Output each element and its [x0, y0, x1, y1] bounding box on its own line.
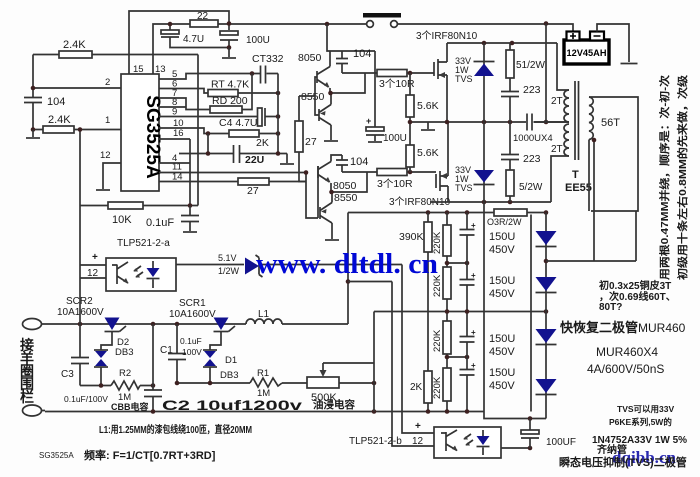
resistor 220K no3 [446, 312, 448, 358]
svg-text:TLP521-2-b: TLP521-2-b [349, 436, 402, 447]
resistor 3x10R bottom [342, 171, 436, 173]
node output terminal bottom [23, 405, 42, 416]
resistor 220K no2 [446, 263, 448, 312]
svg-text:150U: 150U [489, 275, 515, 287]
svg-text:2.4K: 2.4K [48, 114, 71, 126]
capacitor 223 top [501, 92, 519, 97]
capacitor bank C-a [466, 213, 468, 230]
svg-text:12: 12 [412, 436, 424, 447]
svg-text:齐纳管: 齐纳管 [597, 443, 627, 456]
wire: frame box 150U [484, 202, 531, 412]
capacitor 104 left [24, 98, 42, 103]
svg-text:TVS可以用33V: TVS可以用33V [617, 404, 674, 414]
svg-text:100U: 100U [383, 133, 407, 144]
capacitor CT332 [261, 66, 266, 84]
capacitor C2 [152, 324, 154, 390]
svg-text:15: 15 [133, 64, 144, 75]
zener 5.1V 1/2W [176, 264, 244, 266]
resistor R2 1M [80, 385, 153, 387]
capacitor 100U mid [374, 51, 376, 127]
switch S1 [363, 13, 401, 18]
resistor 2.4K upper [59, 51, 92, 58]
inductor primary 2T bottom [564, 124, 569, 156]
svg-text:+: + [92, 252, 98, 263]
svg-text:150U: 150U [489, 367, 515, 379]
wire: bottom rail y202 [430, 201, 551, 203]
diode D-mur2 MUR460 [536, 277, 557, 291]
svg-text:0.1uF: 0.1uF [146, 217, 174, 229]
svg-text:DB3: DB3 [220, 370, 238, 381]
svg-text:O3R/2W: O3R/2W [487, 217, 522, 227]
resistor 27 vertical [299, 96, 306, 182]
wire: pin15 top loop [129, 11, 229, 74]
wire: mid rail y122 [410, 121, 569, 123]
wire: left frame x348 [347, 213, 349, 325]
resistor 10K [80, 205, 198, 207]
svg-text:2K: 2K [410, 382, 423, 393]
svg-text:13: 13 [155, 64, 166, 75]
wire: center tap [534, 121, 570, 123]
svg-text:初级用十条左右0.8MM的先来做，次级: 初级用十条左右0.8MM的先来做，次级 [676, 74, 689, 280]
svg-text:SG3525A: SG3525A [39, 451, 74, 460]
svg-text:223: 223 [523, 153, 541, 165]
wire: opto-a output [259, 265, 434, 434]
resistor 27 horizontal [159, 181, 306, 183]
resistor O3R/2W [494, 209, 527, 216]
wire: pair1 bases [299, 77, 319, 115]
svg-text:450V: 450V [489, 244, 515, 256]
svg-text:5.1V: 5.1V [218, 253, 237, 263]
svg-text:CT332: CT332 [252, 53, 284, 65]
svg-text:L1: L1 [258, 309, 270, 320]
ground battery [621, 63, 638, 65]
resistor RD 200 [159, 74, 252, 110]
transistor M1 IRF80N10 top [433, 62, 435, 76]
wire: x348 link [348, 282, 434, 447]
potentiometer 500K [307, 377, 339, 388]
svg-text:TVS: TVS [455, 74, 473, 84]
wire: mid tap y311.5 [374, 311, 546, 313]
capacitor 100UF [529, 419, 531, 431]
svg-text:27: 27 [247, 185, 259, 197]
wire: pin5 to CT332 [159, 74, 278, 80]
capacitor 1000UX4 [527, 114, 532, 131]
svg-text:RT 4.7K: RT 4.7K [211, 79, 249, 91]
capacitor 100U [220, 31, 238, 35]
ground pin12 [103, 163, 121, 189]
svg-text:C2 10uf1200v: C2 10uf1200v [162, 397, 302, 413]
svg-text:150U: 150U [489, 333, 515, 345]
svg-text:+: + [471, 361, 476, 370]
svg-text:1000UX4: 1000UX4 [513, 133, 553, 144]
diac D1 DB3 [203, 349, 217, 351]
resistor 2K lower [424, 371, 432, 403]
svg-text:500K: 500K [311, 392, 337, 404]
ground mid rail [427, 122, 429, 129]
svg-text:390K: 390K [399, 231, 424, 243]
svg-text:EE55: EE55 [565, 182, 592, 194]
svg-text:频率: F=1/CT[0.7RT+3RD]: 频率: F=1/CT[0.7RT+3RD] [84, 448, 216, 462]
resistor 5/2W [506, 170, 514, 196]
svg-text:D1: D1 [225, 355, 237, 366]
resistor 51/2W [509, 43, 511, 91]
svg-text:5/2W: 5/2W [519, 182, 543, 193]
svg-text:C1: C1 [160, 345, 173, 356]
svg-text:1: 1 [105, 115, 110, 126]
capacitor 0.1uF [189, 206, 191, 216]
resistor 2K [159, 128, 278, 134]
svg-text:瞬态电压抑制(TVS)二极管: 瞬态电压抑制(TVS)二极管 [559, 455, 687, 469]
svg-text:TLP521-2-a: TLP521-2-a [117, 238, 170, 249]
svg-text:100U: 100U [246, 35, 270, 46]
TVS D-tvs2 33V [483, 122, 485, 202]
svg-text:L1:用1.25MM的漆包线绕100匝，直径20MM: L1:用1.25MM的漆包线绕100匝，直径20MM [99, 423, 252, 436]
svg-text:R2: R2 [119, 368, 131, 379]
wire: HV rail y212.5 [348, 212, 546, 214]
wire: SCR rail y324 [42, 323, 349, 325]
svg-text:22U: 22U [245, 154, 264, 166]
wire: top rail y43 [447, 42, 557, 44]
wire: battery plus bus [545, 24, 547, 123]
svg-text:C3: C3 [61, 369, 74, 380]
capacitor bank C-b [466, 263, 468, 279]
svg-text:+: + [415, 421, 421, 432]
wire: primary bottom [551, 156, 569, 202]
svg-text:100V: 100V [182, 347, 202, 357]
resistor R1 1M [177, 382, 307, 384]
resistor 390K [427, 213, 429, 372]
capacitor 223 bottom [509, 122, 511, 154]
svg-text:2T: 2T [551, 144, 563, 155]
wire: 12V rail [153, 21, 573, 74]
ground pair1 [324, 140, 338, 142]
wire: CT332/RT/C4/2K bus [277, 74, 279, 154]
svg-text:4A/600V/50nS: 4A/600V/50nS [587, 362, 664, 376]
battery BT1 12V45AH [564, 40, 609, 64]
resistor 2.4K lower [43, 126, 74, 133]
svg-text:MUR460X4: MUR460X4 [596, 345, 658, 359]
resistor RT 4.7K [159, 89, 278, 94]
svg-text:16: 16 [173, 128, 184, 139]
svg-text:0.1uF/100V: 0.1uF/100V [64, 394, 108, 404]
wire: primary top [557, 43, 569, 90]
svg-text:1/2W: 1/2W [218, 266, 240, 276]
transistor M2 IRF80N10 bottom [435, 174, 437, 188]
ground left [32, 130, 34, 138]
wire: node4 [447, 356, 467, 358]
svg-text:4.7U: 4.7U [183, 34, 204, 45]
svg-text:220K: 220K [432, 376, 443, 399]
wire: battery minus to ground [597, 24, 629, 62]
wire: 100UF node [484, 412, 546, 449]
svg-text:RD 200: RD 200 [212, 95, 248, 107]
wire: x80 riser to rail [79, 206, 81, 325]
svg-text:104: 104 [353, 48, 371, 60]
op-amp U1 SG3525A IC [121, 74, 159, 191]
resistor 3x10R top [342, 72, 434, 74]
diode D-mur1 MUR460 [536, 231, 557, 245]
svg-text:8050: 8050 [298, 52, 322, 64]
svg-text:150U: 150U [489, 231, 515, 243]
svg-text:MUR460: MUR460 [638, 321, 686, 335]
svg-text:2.4K: 2.4K [63, 39, 86, 51]
svg-text:8050: 8050 [333, 180, 357, 192]
wire: pin1 net [33, 103, 121, 206]
svg-text:2T: 2T [551, 96, 563, 107]
svg-text:C4 4.7U: C4 4.7U [219, 117, 258, 129]
svg-text:R1: R1 [257, 368, 269, 379]
svg-text:DB3: DB3 [115, 347, 133, 358]
inductor secondary 56T [589, 97, 593, 140]
capacitor C3 [79, 324, 81, 357]
svg-text:快恢复二极管: 快恢复二极管 [560, 320, 638, 335]
capacitor 104 pair2 [341, 155, 343, 172]
svg-text:450V: 450V [489, 346, 515, 358]
svg-text:220K: 220K [432, 329, 443, 352]
ground top filter [228, 48, 230, 58]
svg-text:0.1uF: 0.1uF [180, 336, 202, 346]
resistor 220K no4 [446, 357, 448, 412]
wire: x374 riser [373, 312, 375, 412]
svg-text:104: 104 [350, 156, 368, 168]
svg-text:+: + [471, 271, 476, 280]
svg-text:104: 104 [47, 96, 65, 108]
capacitor bank C-c [466, 312, 468, 337]
svg-text:8550: 8550 [301, 91, 325, 103]
diode D-mur3 MUR460 [536, 329, 557, 343]
svg-text:450V: 450V [489, 288, 515, 300]
svg-text:3个10R: 3个10R [377, 178, 413, 190]
svg-text:+: + [471, 328, 476, 337]
resistor 220K no1 [446, 213, 448, 264]
inductor primary 2T top [564, 90, 569, 122]
wire: diode column [545, 213, 547, 419]
wire: rail to pair1 [327, 24, 375, 51]
svg-text:5.6K: 5.6K [417, 100, 439, 112]
diac D2 DB3 [94, 349, 108, 351]
wire: secondary return y261 [546, 260, 636, 262]
svg-text:1M: 1M [118, 392, 131, 403]
transformer T EE55 core [575, 81, 579, 160]
svg-text:51/2W: 51/2W [516, 60, 545, 71]
wire: pin2 net [33, 55, 198, 206]
svg-text:TVS: TVS [455, 183, 473, 193]
svg-text:80T?: 80T? [599, 302, 622, 313]
diode D-mur4 MUR460 [536, 379, 557, 393]
svg-text:10A1600V: 10A1600V [169, 309, 216, 320]
capacitor 104 pair1 [341, 51, 343, 73]
svg-text:12V45AH: 12V45AH [567, 48, 607, 58]
svg-text:+: + [471, 221, 476, 230]
svg-text:223: 223 [523, 84, 541, 96]
wire: bottom rail y411.5 [42, 411, 485, 412]
svg-text:T: T [572, 169, 579, 181]
svg-text:2K: 2K [256, 137, 269, 149]
svg-text:2: 2 [105, 77, 110, 88]
ground 100U mid [368, 141, 382, 143]
svg-text:27: 27 [305, 136, 317, 148]
capacitor C4 4.7U [159, 116, 278, 118]
svg-text:10K: 10K [112, 214, 132, 226]
svg-text:100UF: 100UF [546, 437, 576, 448]
capacitor 4.7U [161, 30, 179, 34]
svg-text:用两根0.47MM并绕，顺序是：次-初-次: 用两根0.47MM并绕，顺序是：次-初-次 [658, 74, 671, 281]
ground pair2 [325, 239, 339, 241]
wire: secondary taps down [594, 140, 636, 262]
TVS D-tvs1 33V [483, 43, 485, 122]
inductor L1 [246, 319, 282, 324]
svg-text:5.6K: 5.6K [417, 147, 439, 159]
ground 22U [286, 154, 288, 164]
wire: pin11 to drive [159, 163, 318, 218]
svg-text:P6KE系列,5W的: P6KE系列,5W的 [609, 417, 672, 427]
svg-text:450V: 450V [489, 380, 515, 392]
svg-text:22: 22 [197, 11, 209, 22]
svg-text:1M: 1M [257, 388, 270, 399]
capacitor C1 [176, 324, 178, 353]
svg-text:3个IRF80N10: 3个IRF80N10 [416, 30, 478, 42]
svg-text:12: 12 [100, 150, 111, 161]
svg-text:SCR1: SCR1 [179, 298, 206, 309]
svg-text:8550: 8550 [334, 192, 358, 204]
svg-text:栏: 栏 [20, 389, 34, 405]
resistor 5.6K bottom [409, 122, 411, 172]
wire: secondary loop box [589, 97, 638, 211]
svg-text:www. dltdl. cn: www. dltdl. cn [256, 249, 438, 280]
svg-text:初0.3x25铜皮3T: 初0.3x25铜皮3T [599, 279, 671, 292]
resistor 22 [190, 20, 218, 27]
svg-text:+: + [366, 116, 371, 126]
capacitor 22U [159, 134, 287, 206]
svg-text:56T: 56T [601, 117, 620, 129]
resistor 5.6K top [409, 73, 411, 122]
capacitor bank C-d [466, 357, 468, 369]
node output terminal top [23, 319, 42, 330]
wire: node2 [447, 262, 467, 264]
